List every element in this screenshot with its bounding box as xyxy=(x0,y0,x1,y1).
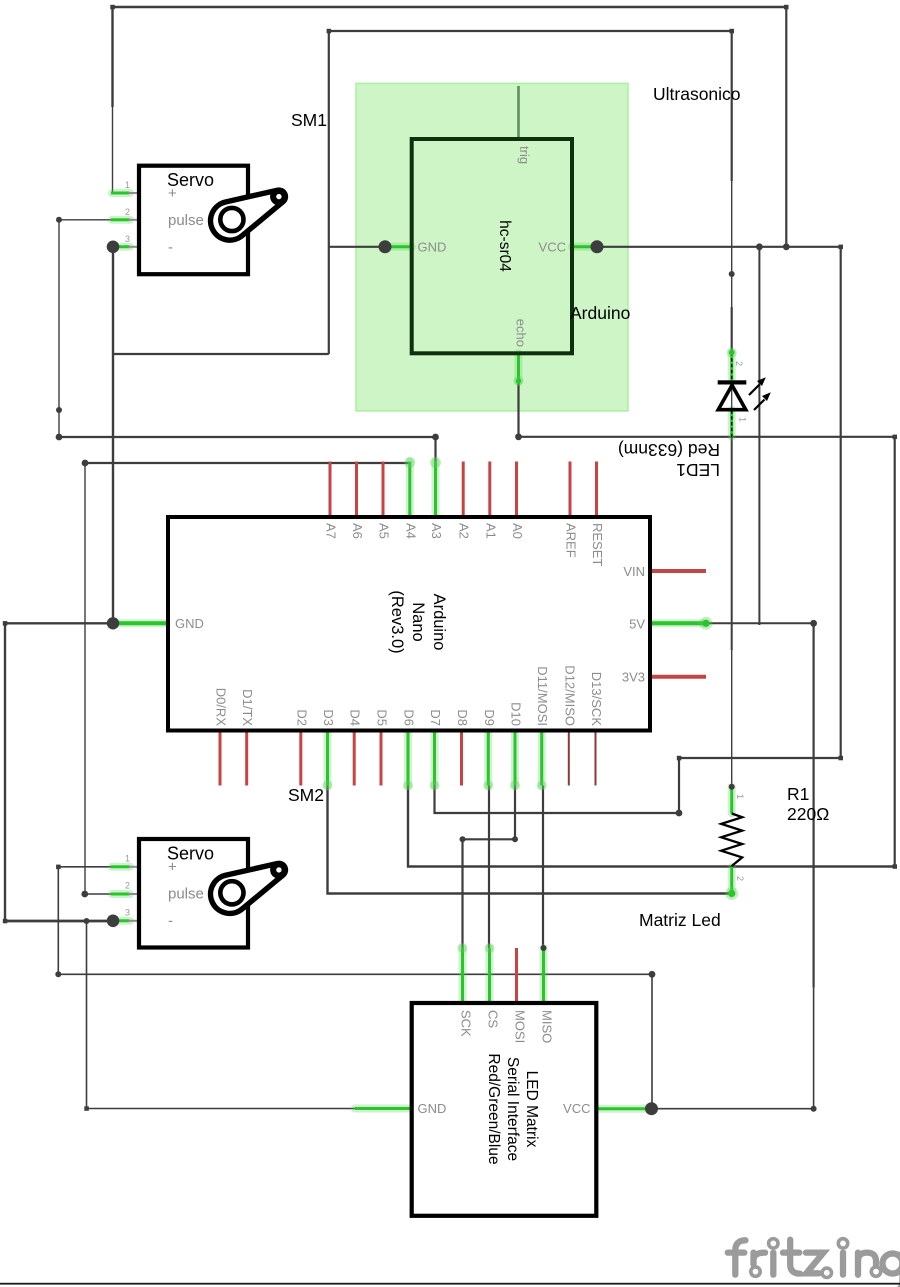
svg-text:VCC: VCC xyxy=(539,240,566,255)
svg-text:LED Matrix: LED Matrix xyxy=(523,1071,540,1148)
wire H10 GND left xyxy=(5,623,113,921)
svg-text:SM1: SM1 xyxy=(291,110,327,130)
svg-text:1: 1 xyxy=(738,417,748,422)
wire GND top H1 xyxy=(113,6,787,9)
wire V6 to SM2 pulse xyxy=(85,463,112,894)
bottom border xyxy=(0,1283,900,1285)
arduino green top/bottom legs xyxy=(328,731,542,786)
svg-text:A0: A0 xyxy=(510,523,525,539)
wire V14 VCC to 5V xyxy=(758,247,760,625)
wire H4 to sensor GND xyxy=(329,246,385,248)
green pin legs xyxy=(111,193,732,1109)
arduino box xyxy=(168,517,650,731)
wire V2 xyxy=(58,220,60,437)
svg-text:2: 2 xyxy=(125,881,130,891)
wire H3 SM1 pulse xyxy=(59,219,112,221)
svg-text:MISO: MISO xyxy=(540,1010,555,1043)
servo SM2 horn xyxy=(211,861,288,913)
svg-text:pulse: pulse xyxy=(168,212,204,229)
matrix MOSI red leg xyxy=(515,948,518,1003)
svg-text:D12/MISO: D12/MISO xyxy=(562,665,577,726)
svg-text:2: 2 xyxy=(125,207,130,217)
wire D6 H15 echo xyxy=(408,786,895,867)
wire H9 to A4 xyxy=(85,462,409,464)
gray pin stubs servo xyxy=(128,193,140,921)
svg-text:D4: D4 xyxy=(348,709,363,726)
wire V4 xyxy=(328,31,330,354)
wire echo H8 xyxy=(519,381,895,437)
wire H11 5V xyxy=(706,622,814,624)
svg-text:1: 1 xyxy=(125,180,130,190)
svg-text:3: 3 xyxy=(125,234,130,244)
wire V12 to LED pin2 xyxy=(731,31,733,181)
red pin legs arduino bottom xyxy=(220,731,462,786)
svg-text:GND: GND xyxy=(418,1101,447,1116)
svg-text:D1/TX: D1/TX xyxy=(240,689,255,726)
svg-text:D13/SCK: D13/SCK xyxy=(589,672,604,727)
svg-text:D3: D3 xyxy=(321,709,336,726)
svg-text:Red/Green/Blue: Red/Green/Blue xyxy=(485,1053,502,1164)
highlight box Ultrasonico xyxy=(356,83,628,411)
wire V7 H21 matrix GND xyxy=(87,921,356,1109)
svg-text:(Rev3.0): (Rev3.0) xyxy=(388,590,406,653)
svg-text:Matriz Led: Matriz Led xyxy=(639,910,721,930)
svg-text:D9: D9 xyxy=(482,709,497,726)
wire D3 V21 H18 to R1 pin2 xyxy=(328,786,733,894)
svg-text:MOSI: MOSI xyxy=(513,1010,528,1043)
svg-text:A2: A2 xyxy=(457,523,472,539)
dark red unconnected D12 D13 xyxy=(569,731,596,786)
svg-text:GND: GND xyxy=(175,616,204,631)
svg-text:trig: trig xyxy=(517,146,532,164)
svg-text:A4: A4 xyxy=(403,523,418,539)
wire D10 H14 V24 xyxy=(463,786,516,949)
wire SM2 pin1 V8 H20 V20 xyxy=(58,867,652,1109)
arduino center text xyxy=(388,590,448,653)
wire V16 5V to matrix VCC xyxy=(812,623,814,987)
svg-text:D10: D10 xyxy=(509,702,524,726)
wire V13 LED pin1 to R1 xyxy=(731,437,733,650)
svg-text:3V3: 3V3 xyxy=(622,670,645,685)
wire H7 to A3 xyxy=(59,437,436,462)
svg-text:-: - xyxy=(168,913,173,930)
wire V17 H12 V18 xyxy=(679,247,841,813)
svg-text:RESET: RESET xyxy=(590,523,605,566)
svg-text:hc-sr04: hc-sr04 xyxy=(496,220,513,272)
svg-text:CS: CS xyxy=(486,1010,501,1028)
svg-text:SCK: SCK xyxy=(459,1010,474,1037)
svg-text:Arduino: Arduino xyxy=(430,594,448,651)
svg-text:+: + xyxy=(168,185,177,202)
svg-text:A3: A3 xyxy=(429,523,444,539)
wire V3 GND left column xyxy=(112,247,114,623)
svg-text:pulse: pulse xyxy=(168,886,204,903)
hc-sr04 box xyxy=(412,139,572,353)
red pin legs arduino top xyxy=(330,462,597,518)
light arrows xyxy=(749,385,760,396)
svg-text:D5: D5 xyxy=(375,709,390,726)
svg-text:VIN: VIN xyxy=(623,564,645,579)
svg-text:D6: D6 xyxy=(402,709,417,726)
LED1 symbol xyxy=(718,353,771,437)
svg-text:GND: GND xyxy=(418,240,447,255)
svg-text:A5: A5 xyxy=(377,523,392,539)
svg-text:R1: R1 xyxy=(787,784,809,804)
svg-text:D0/RX: D0/RX xyxy=(214,688,229,727)
wire H5 sensor VCC xyxy=(597,246,841,248)
svg-text:SM2: SM2 xyxy=(288,785,324,805)
svg-text:D11/MOSI: D11/MOSI xyxy=(535,666,550,726)
svg-text:3: 3 xyxy=(125,908,130,918)
red side legs VIN 3V3 xyxy=(650,569,706,573)
svg-text:Arduino: Arduino xyxy=(570,303,630,323)
svg-text:D7: D7 xyxy=(428,709,443,726)
wire V15 xyxy=(785,7,787,247)
arduino GND leg thicker xyxy=(114,621,168,625)
svg-text:5V: 5V xyxy=(629,616,645,631)
pin glows (green connected pins) xyxy=(112,193,732,1109)
svg-text:Serial Interface: Serial Interface xyxy=(504,1057,521,1161)
svg-text:2: 2 xyxy=(734,361,744,366)
matrix texts xyxy=(485,1053,540,1164)
svg-text:LED1: LED1 xyxy=(676,460,720,480)
svg-text:AREF: AREF xyxy=(564,523,579,558)
wire SM2 pin3 H19 xyxy=(5,920,113,922)
wire H6 xyxy=(113,353,329,355)
LED1 label (rotated 180) xyxy=(618,440,720,480)
wire H2 y31 xyxy=(329,30,732,32)
green terminal dots xyxy=(700,617,713,630)
svg-text:1: 1 xyxy=(735,794,745,799)
svg-text:Nano: Nano xyxy=(409,602,427,641)
svg-text:A7: A7 xyxy=(324,523,339,539)
servo SM2 box xyxy=(139,839,248,948)
svg-text:A6: A6 xyxy=(350,523,365,539)
svg-text:-: - xyxy=(168,239,173,256)
matrix box xyxy=(412,1003,597,1216)
big terminal dots xyxy=(107,240,658,1115)
svg-text:D8: D8 xyxy=(455,709,470,726)
sensor trig leg xyxy=(517,86,520,139)
wire V1 SM1 pin1 xyxy=(111,7,113,107)
svg-text:VCC: VCC xyxy=(563,1101,590,1116)
wire D9 V22 xyxy=(488,786,490,949)
svg-text:1: 1 xyxy=(125,854,130,864)
svg-text:D2: D2 xyxy=(294,709,309,726)
svg-text:A1: A1 xyxy=(483,523,498,539)
wire D7 H13 xyxy=(435,786,680,814)
resistor R1 zigzag xyxy=(721,814,742,867)
fritzing logo xyxy=(728,1240,900,1287)
svg-text:+: + xyxy=(168,859,177,876)
servo SM1 box xyxy=(139,166,248,275)
wire V19 xyxy=(894,437,896,867)
svg-text:echo: echo xyxy=(514,319,529,347)
svg-text:Ultrasonico: Ultrasonico xyxy=(653,84,741,104)
svg-text:220Ω: 220Ω xyxy=(787,804,829,824)
servo SM1 horn xyxy=(211,188,288,240)
svg-text:2: 2 xyxy=(735,876,745,881)
svg-text:Red (633nm): Red (633nm) xyxy=(618,440,720,460)
wire D11 V25 xyxy=(542,786,544,949)
